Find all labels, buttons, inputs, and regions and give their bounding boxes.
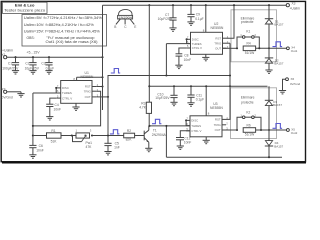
svg-text:THRES: THRES — [192, 42, 202, 46]
svg-text:OUT: OUT — [215, 46, 221, 50]
svg-text:OUT: OUT — [85, 95, 91, 99]
svg-text:R1: R1 — [51, 129, 55, 133]
svg-text:Eliminare: Eliminare — [241, 96, 255, 100]
svg-text:82K: 82K — [126, 138, 133, 142]
svg-text:Out2: Out2 — [291, 131, 298, 135]
svg-text:Ualim=15V: f=982Hz,4.7KHz / fu: Ualim=15V: f=982Hz,4.7KHz / fu=44%,45% — [24, 29, 100, 33]
svg-text:OUT: OUT — [215, 128, 221, 132]
svg-text:0V/Gnd: 0V/Gnd — [2, 96, 13, 100]
svg-text:CTRL V: CTRL V — [191, 129, 201, 133]
svg-text:Ualim=5V: f=772Hz,4.21KHz / f: Ualim=5V: f=772Hz,4.21KHz / fu=38%,34% — [24, 16, 102, 20]
svg-text:51K: 51K — [51, 139, 58, 143]
svg-text:0V/Gnd: 0V/Gnd — [290, 82, 301, 86]
svg-text:R6: R6 — [247, 123, 251, 127]
svg-text:RST: RST — [215, 36, 221, 40]
svg-text:K1: K1 — [246, 30, 250, 34]
svg-text:K2: K2 — [246, 111, 250, 115]
svg-text:NE555N: NE555N — [211, 26, 224, 30]
svg-text:OBS:: OBS: — [27, 36, 35, 40]
svg-text:C4: C4 — [55, 103, 59, 107]
svg-text:0.1µF: 0.1µF — [196, 97, 205, 101]
svg-text:X3: X3 — [292, 2, 296, 6]
svg-text:protectie: protectie — [241, 20, 254, 24]
svg-text:C3: C3 — [41, 62, 45, 66]
svg-text:100µF/25V: 100µF/25V — [2, 67, 19, 71]
svg-text:Tester buzzere piezo: Tester buzzere piezo — [4, 8, 45, 12]
svg-text:C6: C6 — [39, 144, 43, 148]
svg-text:DISC: DISC — [62, 86, 69, 90]
svg-text:+Ualim: +Ualim — [2, 49, 13, 53]
svg-text:BA157: BA157 — [274, 23, 283, 27]
svg-text:10nF: 10nF — [184, 58, 192, 62]
svg-text:protectie: protectie — [241, 101, 254, 105]
svg-text:C2: C2 — [25, 62, 29, 66]
svg-text:1nF: 1nF — [114, 146, 120, 150]
svg-text:THRES: THRES — [62, 91, 72, 95]
svg-text:10µF/25V: 10µF/25V — [155, 96, 170, 100]
svg-text:C1: C1 — [8, 62, 12, 66]
svg-text:10nF: 10nF — [54, 107, 62, 111]
svg-text:RST: RST — [215, 118, 221, 122]
svg-text:TRIG: TRIG — [84, 89, 92, 93]
svg-text:10nF: 10nF — [36, 149, 44, 153]
svg-text:47K: 47K — [86, 145, 93, 149]
svg-text:BA157: BA157 — [274, 62, 283, 66]
svg-text:E: E — [134, 25, 136, 29]
svg-text:C8: C8 — [184, 53, 188, 57]
svg-text:+Ualim: +Ualim — [290, 7, 301, 11]
svg-text:BA157: BA157 — [274, 144, 283, 148]
svg-text:10µF/25V: 10µF/25V — [158, 17, 173, 21]
svg-text:0.1µF: 0.1µF — [46, 67, 55, 71]
svg-text:NE555N: NE555N — [210, 106, 223, 110]
svg-text:B: B — [114, 25, 116, 29]
svg-text:10nF: 10nF — [184, 141, 192, 145]
svg-text:DISC: DISC — [191, 119, 198, 123]
svg-text:Emi & Leo: Emi & Leo — [15, 2, 35, 7]
svg-text:4.7K: 4.7K — [139, 106, 147, 110]
svg-text:Out1 (X4) fata de masa (X6): Out1 (X4) fata de masa (X6) — [46, 40, 98, 44]
svg-text:BA157: BA157 — [273, 103, 282, 107]
svg-text:0.1µF: 0.1µF — [195, 17, 204, 21]
svg-text:TRIG: TRIG — [214, 41, 222, 45]
svg-text:Out1: Out1 — [291, 49, 298, 53]
svg-text:CTRL V: CTRL V — [192, 46, 202, 50]
svg-text:RST: RST — [85, 85, 91, 89]
svg-text:51/1W: 51/1W — [245, 133, 255, 137]
svg-text:R4: R4 — [247, 42, 251, 46]
svg-text:+5...15V: +5...15V — [26, 51, 40, 55]
svg-text:CTRL V: CTRL V — [62, 96, 72, 100]
svg-text:R2: R2 — [127, 129, 131, 133]
svg-text:51/1W: 51/1W — [245, 51, 255, 55]
svg-text:X6: X6 — [291, 77, 295, 81]
svg-text:10µF/25V: 10µF/25V — [25, 67, 40, 71]
svg-text:2N2904A: 2N2904A — [152, 133, 167, 137]
svg-text:THRES: THRES — [191, 124, 201, 128]
svg-text:TRIG: TRIG — [214, 123, 222, 127]
svg-text:Ualim=10V: f=882Hz,4.21KHz / f: Ualim=10V: f=882Hz,4.21KHz / fu=42% — [24, 23, 94, 27]
